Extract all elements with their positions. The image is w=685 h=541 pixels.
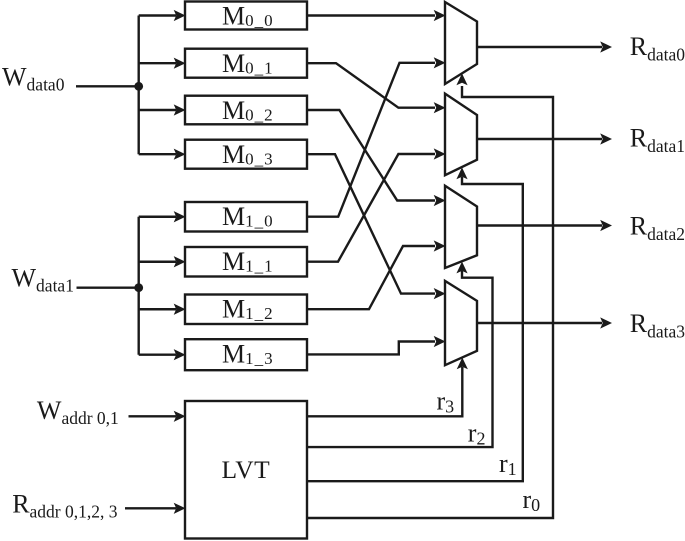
svg-text:LVT: LVT xyxy=(222,455,271,484)
arrow mux U1 input A xyxy=(434,102,446,113)
arrow mux U2 input A xyxy=(434,195,446,206)
memory block M0_2 xyxy=(185,96,307,125)
svg-text:Rdata3: Rdata3 xyxy=(630,309,685,342)
wire M0_1 to mux U1 input A xyxy=(307,63,435,107)
memory block M0_3 xyxy=(185,140,307,169)
memory block M0_0 xyxy=(185,2,307,30)
mux U1 (read port 1 2:1 multiplexer) xyxy=(445,94,477,176)
svg-text:Wdata0: Wdata0 xyxy=(2,63,65,95)
mux U0 (read port 0 2:1 multiplexer) xyxy=(445,2,477,84)
arrow into M0_1 xyxy=(174,58,186,69)
svg-text:M0_0: M0_0 xyxy=(222,2,274,31)
wire M1_1 to mux U1 input B xyxy=(307,154,435,262)
arrow mux U0 input A xyxy=(434,10,446,21)
arrow mux U1 input B xyxy=(434,148,446,159)
svg-text:M1_0: M1_0 xyxy=(222,202,274,231)
arrow into M0_3 xyxy=(174,149,186,160)
arrow R_data0 xyxy=(600,41,612,52)
wire W_data0 input xyxy=(76,85,139,87)
wire W_data1 branch to M1_3 xyxy=(139,354,176,356)
wire W_data1 branch to M1_2 xyxy=(139,308,176,310)
memory block M1_0 xyxy=(185,202,307,232)
wire W_data1 branch to M1_0 xyxy=(139,216,176,218)
wire mux U2 output to R_data2 xyxy=(477,224,602,226)
arrow into M0_2 xyxy=(174,104,186,115)
svg-text:r1: r1 xyxy=(499,449,517,479)
wire M0_0 to mux U0 input A xyxy=(307,14,435,16)
arrow R_data3 xyxy=(600,317,612,328)
memory block M1_3 xyxy=(185,339,307,370)
wire M0_2 to mux U2 input A xyxy=(307,110,435,201)
wire M1_2 to mux U2 input B xyxy=(307,246,435,309)
wire M1_3 to mux U3 input B xyxy=(307,342,435,355)
svg-text:M1_3: M1_3 xyxy=(222,339,274,368)
svg-text:M1_2: M1_2 xyxy=(222,295,274,324)
wire W_data1 input xyxy=(77,287,139,289)
svg-text:r3: r3 xyxy=(437,387,455,417)
wire mux U3 output to R_data3 xyxy=(477,322,602,324)
wire M1_0 to mux U0 input B xyxy=(307,63,435,217)
arrow mux U2 select xyxy=(456,262,467,274)
svg-text:Rdata2: Rdata2 xyxy=(630,211,685,244)
mux U2 (read port 2 2:1 multiplexer) xyxy=(445,186,477,268)
mux U3 (read port 3 2:1 multiplexer) xyxy=(445,281,477,365)
arrow mux U0 input B xyxy=(434,57,446,68)
wire r1 select from LVT to mux U1 xyxy=(307,177,523,481)
svg-text:r0: r0 xyxy=(523,485,541,515)
wire W_data0 branch to M0_3 xyxy=(139,153,176,155)
svg-text:Wdata1: Wdata1 xyxy=(12,264,74,296)
wire r3 select from LVT to mux U3 xyxy=(307,367,462,416)
arrow mux U1 select xyxy=(456,167,467,179)
wire M0_3 to mux U3 input A xyxy=(307,154,435,293)
arrow mux U3 select xyxy=(457,358,468,370)
memory block M1_2 xyxy=(185,295,307,325)
arrow mux U3 input B xyxy=(434,336,446,347)
wire W_addr input to LVT xyxy=(129,415,177,417)
arrow R_data1 xyxy=(600,133,612,144)
svg-text:Rdata1: Rdata1 xyxy=(630,124,685,157)
wire mux U0 output to R_data0 xyxy=(477,46,602,48)
wire W_data1 branch to M1_1 xyxy=(139,261,176,263)
svg-text:r2: r2 xyxy=(468,419,486,449)
svg-text:Raddr 0,1,2, 3: Raddr 0,1,2, 3 xyxy=(12,489,118,521)
wire W_data1 vertical bus xyxy=(137,217,139,355)
arrow mux U3 input A xyxy=(434,288,446,299)
wire W_data0 branch to M0_2 xyxy=(139,109,176,111)
svg-text:Waddr 0,1: Waddr 0,1 xyxy=(37,396,119,428)
svg-text:M1_1: M1_1 xyxy=(222,247,274,276)
arrow into M1_1 xyxy=(174,256,186,267)
svg-text:M0_1: M0_1 xyxy=(222,49,274,78)
arrow R_data2 xyxy=(600,220,612,231)
svg-text:Rdata0: Rdata0 xyxy=(630,32,685,65)
LVT block xyxy=(185,401,307,539)
arrow into LVT W_addr xyxy=(174,411,186,422)
wire r2 select from LVT to mux U2 xyxy=(307,271,493,447)
arrow mux U2 input B xyxy=(434,240,446,251)
wire r0 select from LVT to mux U0 xyxy=(307,86,553,518)
svg-text:M0_3: M0_3 xyxy=(222,140,274,169)
wire W_data0 branch to M0_1 xyxy=(139,62,176,64)
arrow mux U0 select xyxy=(456,73,467,85)
node W_data0 junction xyxy=(134,82,143,91)
arrow into M1_3 xyxy=(174,349,186,360)
wire W_data0 vertical bus xyxy=(137,16,139,155)
memory block M0_1 xyxy=(185,49,307,78)
svg-text:M0_2: M0_2 xyxy=(222,96,274,125)
wire W_data0 branch to M0_0 xyxy=(139,14,176,16)
arrow into M1_0 xyxy=(174,211,186,222)
memory block M1_1 xyxy=(185,247,307,277)
arrow into M0_0 xyxy=(174,10,186,21)
wire mux U1 output to R_data1 xyxy=(477,138,602,140)
arrow into LVT R_addr xyxy=(174,503,186,514)
node W_data1 junction xyxy=(134,283,143,292)
wire R_addr input to LVT xyxy=(125,507,176,509)
arrow into M1_2 xyxy=(174,304,186,315)
